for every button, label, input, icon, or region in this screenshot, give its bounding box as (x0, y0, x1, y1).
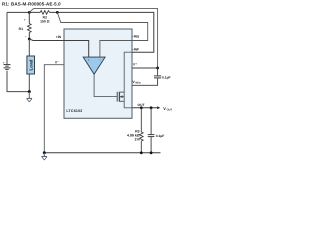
svg-text:Load: Load (28, 59, 33, 70)
wire ground rail (44, 152, 160, 154)
wire OUT (132, 107, 158, 109)
svg-text:0.1µF: 0.1µF (156, 134, 165, 138)
wire -IN drop (100, 41, 132, 58)
wire top after R2 to -INF drop (50, 12, 154, 52)
transistor M1 (117, 92, 124, 102)
svg-text:−: − (99, 58, 101, 62)
svg-text:R1: R1 (19, 27, 23, 31)
node after R2 (56, 11, 59, 14)
svg-text:+: + (3, 61, 5, 65)
svg-text:+: + (88, 58, 90, 62)
svg-text:−: − (25, 35, 27, 39)
node R1 bottom (28, 38, 31, 41)
IC box U1 (64, 29, 132, 118)
resistor R2 (40, 11, 49, 15)
node V+ cap (156, 67, 159, 70)
wire +IN (29, 39, 88, 57)
node rail left (43, 151, 46, 154)
ground bottom (42, 153, 48, 160)
wire -INF to source and drain to OUT (124, 52, 132, 108)
wire left supply rail (6, 12, 8, 64)
svg-text:−INS: −INS (132, 34, 140, 38)
node rail R3 (140, 151, 143, 154)
svg-text:V⁺: V⁺ (133, 63, 137, 67)
ground left (27, 92, 33, 102)
label R3 value (127, 130, 140, 142)
svg-text:REG: REG (136, 82, 141, 85)
capacitor C2 (148, 108, 155, 153)
svg-text:OUT: OUT (167, 109, 173, 112)
svg-text:LTC6102: LTC6102 (66, 109, 82, 113)
wire load vertical (28, 39, 30, 56)
resistor R3 (140, 108, 144, 153)
node out C2 (150, 106, 153, 109)
svg-text:150 Ω: 150 Ω (40, 20, 50, 24)
wire load to gnd node (28, 74, 30, 92)
svg-text:+: + (24, 18, 26, 22)
svg-text:V⁻: V⁻ (55, 61, 59, 65)
load box (27, 56, 35, 74)
label R2 value (40, 16, 50, 24)
wire V+ branch y=8.6 (29, 9, 157, 68)
svg-text:R1: BAS-M-R00005-AE-5.0: R1: BAS-M-R00005-AE-5.0 (2, 2, 61, 7)
node out R3 (140, 106, 143, 109)
wire top y=12.4 (7, 11, 40, 13)
svg-text:1%: 1% (135, 137, 141, 141)
transistor body arrow (120, 95, 123, 98)
svg-text:−INF: −INF (132, 47, 139, 51)
wire V- to ground rail (44, 65, 64, 153)
node rail C2 (150, 151, 153, 154)
arrow out (157, 106, 160, 109)
node R1 top (28, 11, 31, 14)
battery V1 (4, 65, 11, 70)
svg-text:+IN: +IN (56, 35, 62, 39)
wire opamp out to gate (94, 74, 117, 96)
wire V+ stub (132, 67, 158, 69)
wire -INS branch y=22.5 (57, 12, 147, 40)
node load bottom (28, 90, 31, 93)
op-amp A1 (83, 57, 105, 74)
resistor R1 sense (28, 12, 32, 39)
svg-text:0.1µF: 0.1µF (162, 76, 171, 80)
capacitor C1 (132, 68, 161, 85)
